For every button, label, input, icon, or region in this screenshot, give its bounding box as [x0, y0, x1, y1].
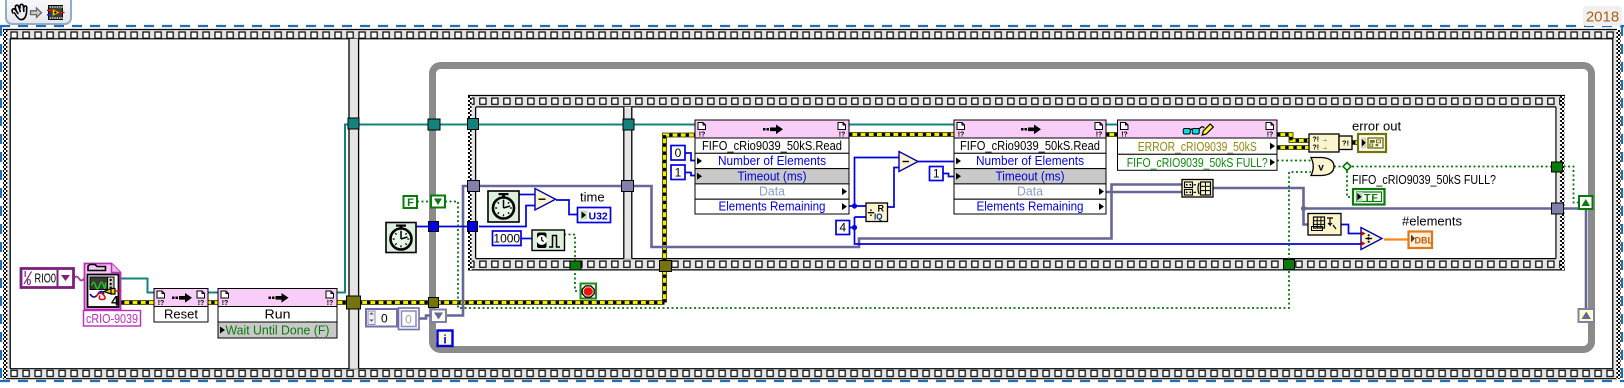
wire error cluster (node3 header to merge) — [1277, 135, 1309, 141]
svg-text:Data: Data — [1017, 185, 1043, 199]
svg-text:Run: Run — [265, 307, 291, 322]
svg-text:cRIO-9039: cRIO-9039 — [86, 311, 138, 326]
svg-text:!?: !? — [1121, 132, 1128, 139]
svg-text:ERROR_cRIO9039_50kS: ERROR_cRIO9039_50kS — [1138, 139, 1257, 154]
wire array-to-number to divide — [1341, 225, 1361, 234]
wire remainder to subtract 2 — [887, 168, 899, 208]
outer flat sequence structure border — [3, 30, 1617, 39]
tunnel error on outer divider — [347, 296, 361, 309]
invoke node Reset — [154, 289, 208, 307]
svg-text:Data: Data — [759, 185, 785, 199]
tunnel array on inner divider — [622, 181, 634, 192]
svg-text:U32: U32 — [589, 211, 608, 223]
inner sequence frame divider — [624, 107, 632, 259]
wire subtract2 to number of elements node2 — [917, 161, 954, 163]
wire FIFO data array to append node (lavender) — [1106, 191, 1182, 194]
tunnel array on sequence right — [1552, 203, 1564, 214]
tunnel boolean on sequence right — [1552, 162, 1563, 172]
outer sequence frame divider — [349, 39, 359, 369]
iteration terminal i — [438, 331, 453, 347]
wire boolean wait to stop terminal — [564, 235, 580, 292]
svg-text:!?: !? — [1267, 132, 1274, 139]
wire boolean FULL? to or — [1277, 160, 1311, 162]
svg-text:2018: 2018 — [1586, 9, 1619, 26]
invoke node FIFO read 1 — [695, 120, 849, 138]
merge errors node — [1309, 134, 1339, 152]
append array node — [1182, 180, 1213, 198]
row Wait Until Done (F) — [218, 322, 337, 338]
svg-text:FIFO_cRio9039_50kS.Read: FIFO_cRio9039_50kS.Read — [702, 138, 842, 153]
svg-text:0: 0 — [405, 313, 412, 327]
toolbar hand tool icon — [12, 4, 27, 19]
svg-text:?!: ?! — [1342, 139, 1349, 148]
svg-text:1000: 1000 — [493, 232, 520, 246]
svg-text:?! →: ?! → — [1313, 137, 1329, 144]
svg-text:Elements Remaining: Elements Remaining — [719, 200, 826, 214]
array constant 0 (shift register init) — [366, 309, 397, 327]
tunnel teal on inner divider — [623, 119, 634, 130]
stop button terminal — [581, 284, 597, 299]
svg-text:!?: !? — [198, 300, 205, 307]
tunnel teal on loop border — [428, 119, 440, 130]
svg-text:DBL: DBL — [1415, 236, 1434, 246]
wire constant 0 to number of elements — [685, 153, 695, 161]
wire constant 1 to timeout node2 — [943, 174, 954, 177]
svg-text:Elements Remaining: Elements Remaining — [977, 200, 1084, 214]
or node — [1311, 158, 1334, 176]
tunnel error on loop border — [429, 298, 439, 308]
wait ms node — [532, 230, 565, 251]
svg-text:4: 4 — [111, 293, 119, 309]
constant F — [404, 196, 418, 208]
svg-text:RIO0: RIO0 — [35, 271, 57, 286]
wire boolean F constant to shift register — [417, 201, 431, 203]
wire subtract result to time indicator — [556, 200, 577, 215]
svg-text:FIFO_cRIO9039_50kS FULL?: FIFO_cRIO9039_50kS FULL? — [1127, 155, 1268, 170]
property node ERROR / FULL — [1118, 120, 1278, 138]
svg-text:1: 1 — [675, 166, 682, 180]
invoke node FIFO read 2 — [954, 120, 1106, 138]
tunnel teal on outer divider — [348, 118, 359, 129]
indicator U32 — [578, 208, 611, 223]
wire division result (orange DBL) — [1384, 238, 1408, 240]
wire error cluster (frame1 to loop) — [121, 300, 665, 305]
shift register left (array) — [431, 310, 446, 323]
tick count clock (frame A) — [488, 191, 519, 222]
tunnel error on sequence bottom — [660, 261, 672, 272]
while loop border — [433, 66, 1592, 350]
svg-text:TF: TF — [1364, 192, 1379, 204]
wire appended array output (lavender) — [1213, 188, 1586, 310]
wire tick count (blue) outer clock into sequence — [416, 206, 535, 227]
svg-text:Number of Elements: Number of Elements — [718, 154, 826, 168]
tunnel blue on sequence left — [468, 222, 478, 232]
wire error cluster (merge to error out) — [1352, 140, 1358, 145]
shift register right (array) — [1579, 309, 1595, 322]
svg-text:!?: !? — [222, 300, 229, 307]
svg-text:IQ: IQ — [874, 213, 882, 222]
svg-text:error out: error out — [1352, 119, 1402, 134]
subtract node (time elapsed) — [535, 189, 556, 211]
svg-text:?! →: ?! → — [1313, 145, 1329, 152]
wire 1000 to wait ms — [521, 238, 532, 240]
indicator FULL? TF — [1353, 189, 1385, 205]
svg-text:0: 0 — [381, 312, 388, 326]
inner flat sequence structure border — [468, 96, 1565, 107]
svg-text:F: F — [407, 197, 414, 209]
wire boolean shift register across loop bottom — [445, 172, 1311, 308]
svg-text:Number of Elements: Number of Elements — [976, 154, 1084, 168]
tunnel array on sequence left — [468, 181, 480, 192]
wire boolean or output to junction — [1334, 167, 1579, 203]
constant 0 elements node1 — [671, 146, 685, 161]
tick count clock (outside loop) — [386, 223, 416, 253]
tunnel boolean on sequence bottom right — [1284, 260, 1295, 270]
subtract node 2 — [899, 152, 918, 172]
indicator error out — [1358, 134, 1386, 152]
wire error cluster (riser to FIFO read 1) — [665, 135, 698, 303]
wire FPGA reference (teal) — [121, 125, 1277, 293]
constant 1000 wait — [493, 231, 522, 246]
wire error cluster (node3 error property to merge) — [1277, 145, 1309, 150]
svg-text:Wait Until Done (F): Wait Until Done (F) — [226, 323, 330, 338]
svg-text:#elements: #elements — [1402, 214, 1462, 229]
constant 4 modulo — [836, 221, 850, 235]
svg-text:1: 1 — [933, 167, 940, 181]
wire FXP array from shift register (lavender) — [419, 185, 1182, 319]
toolbar box — [6, 0, 71, 24]
svg-text:!?: !? — [327, 300, 334, 307]
wire constant 4 branch — [849, 217, 1361, 244]
node Open FPGA VI Reference — [85, 264, 121, 310]
indicator #elements DBL — [1409, 232, 1433, 249]
svg-text:time: time — [580, 190, 605, 205]
constant 1 timeout node1 — [671, 165, 685, 180]
wire IO resource squiggle — [74, 277, 84, 281]
svg-text:0: 0 — [675, 146, 682, 160]
svg-text:FIFO_cRIO9039_50kS FULL?: FIFO_cRIO9039_50kS FULL? — [1352, 172, 1496, 187]
svg-text:v: v — [1318, 163, 1324, 174]
wire error cluster (between nodes) — [849, 132, 1117, 137]
IO constant RIO0 — [21, 269, 74, 288]
label cRIO-9039 — [84, 311, 141, 327]
boolean wire junction diamond — [1343, 163, 1351, 171]
array to number node — [1308, 214, 1341, 236]
wire elements remaining to quotient remainder — [849, 158, 899, 207]
constant 1 timeout node2 — [930, 167, 944, 181]
wire frame clock to subtract — [519, 194, 535, 196]
tunnel blue on loop border — [429, 222, 439, 232]
tunnel teal on inner sequence left — [468, 119, 479, 130]
shift register left (boolean) — [431, 196, 445, 208]
toolbar vi icon — [49, 6, 63, 20]
invoke node Run — [218, 289, 337, 307]
divide node — [1361, 228, 1382, 250]
tunnel boolean stop on sequence bottom — [570, 261, 581, 270]
svg-text:FIFO_cRio9039_50kS.Read: FIFO_cRio9039_50kS.Read — [960, 138, 1100, 153]
svg-text:Reset: Reset — [164, 307, 198, 322]
wire constant 1 to timeout — [685, 173, 695, 176]
shift register right (boolean) — [1579, 196, 1593, 209]
label 2018 — [1583, 6, 1622, 26]
quotient and remainder node — [866, 203, 888, 222]
svg-text:4: 4 — [839, 221, 846, 235]
toolbar arrow icon — [31, 8, 42, 17]
svg-text:Timeout (ms): Timeout (ms) — [996, 169, 1065, 183]
svg-text:i: i — [443, 333, 446, 347]
svg-text:Timeout (ms): Timeout (ms) — [738, 169, 807, 183]
